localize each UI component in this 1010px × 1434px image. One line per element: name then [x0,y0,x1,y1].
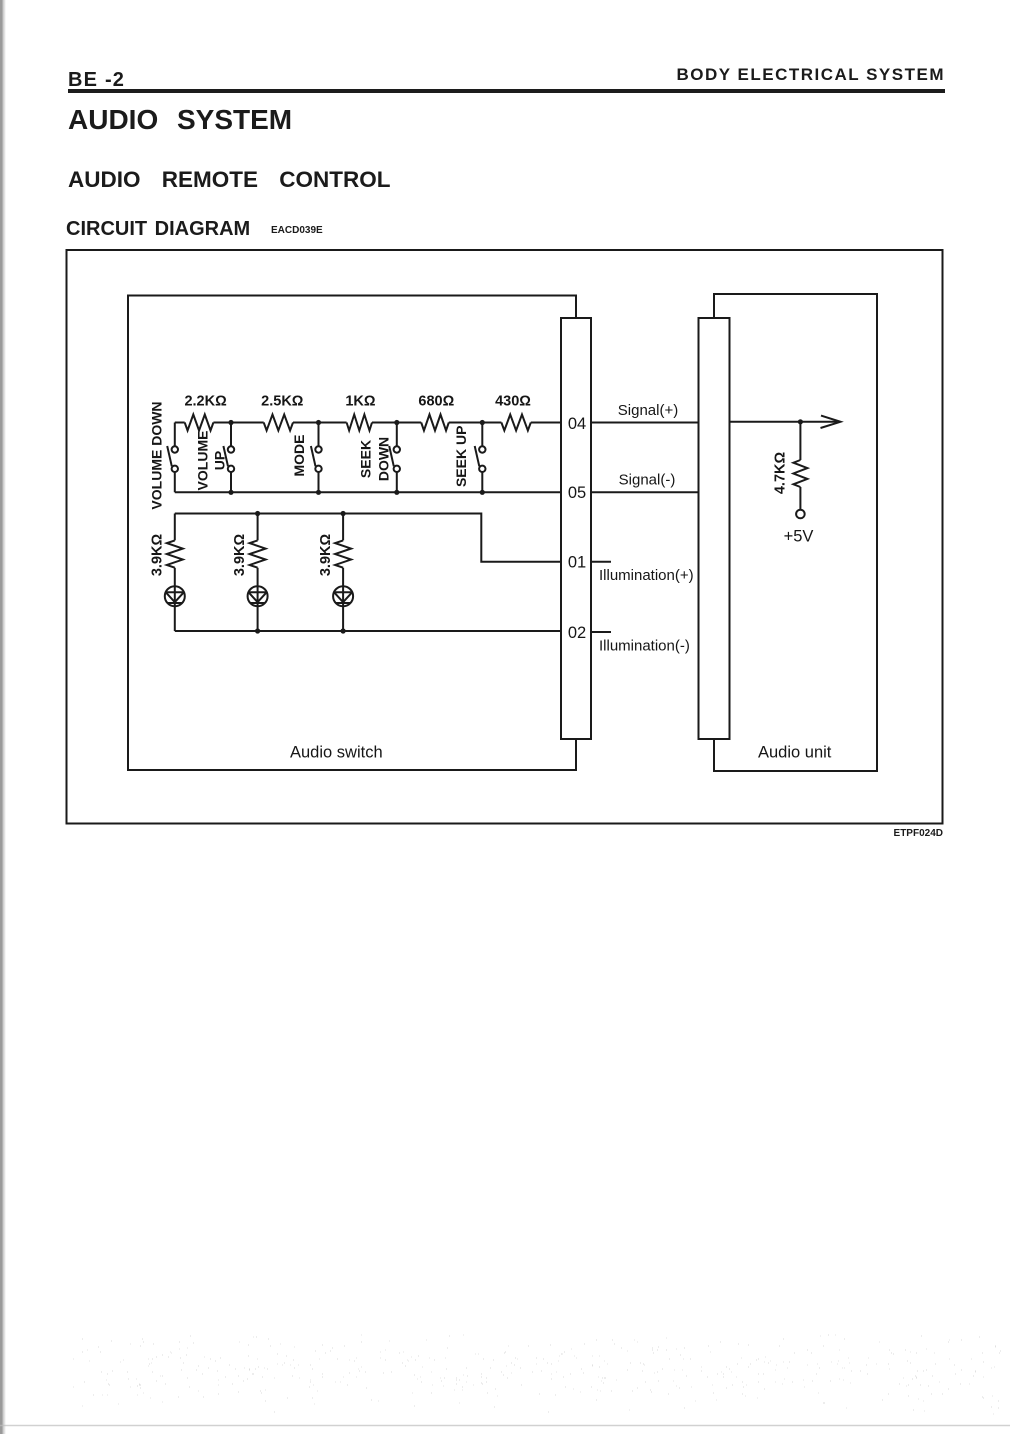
header: BODY ELECTRICAL SYSTEM [645,66,945,83]
resistor R 430 zigzag [501,415,530,431]
svg-text:Signal(+): Signal(+) [618,402,678,419]
header: page number BE -2 [68,70,125,90]
svg-text:2.5KΩ: 2.5KΩ [261,394,304,410]
title AUDIO SYSTEM [68,106,292,134]
illumination branch 1: wire [174,514,176,632]
wire: 4.7K pull-up branch [799,422,801,510]
resistor R 3.9K (branch 1) [167,540,183,567]
svg-text:1KΩ: 1KΩ [345,394,376,410]
label SEEK DOWN (rotated, 2 lines) [358,437,392,481]
wire: Signal(-) between connectors [591,491,699,493]
arrowhead [821,416,841,428]
header rule [68,89,945,93]
svg-text:+5V: +5V [784,528,814,546]
node dot at 4.7K tap [798,419,803,424]
wire: Signal(+) between connectors [591,422,699,424]
svg-text:SEEK: SEEK [358,440,374,478]
wire: signal line inside audio unit with arrow [730,421,837,423]
svg-text:3.9KΩ: 3.9KΩ [318,534,334,577]
wire: illumination bottom rail (pin 02 row) [175,630,561,632]
Audio switch box [128,296,576,771]
switch SW2 VOLUME UP [223,423,234,493]
svg-text:2.2KΩ: 2.2KΩ [184,394,227,410]
figure code ETPF024D [843,829,943,839]
label VOLUME UP (rotated, 2 lines) [195,431,228,491]
node junction dots on top rail [228,420,485,425]
resistor R 1K zigzag [347,415,372,431]
wire: top resistor-chain rail (pin 04 row) [175,422,561,424]
svg-text:Audio switch: Audio switch [290,744,383,762]
resistor R 2.5K zigzag [264,415,293,431]
scan noise [73,1335,1001,1414]
node junction dots on 05 rail [228,490,485,495]
node junction dots on 02 rail [255,628,346,633]
svg-text:VOLUME DOWN: VOLUME DOWN [149,401,165,509]
svg-text:DOWN: DOWN [375,437,391,481]
svg-text:3.9KΩ: 3.9KΩ [150,534,166,577]
svg-text:VOLUME: VOLUME [195,431,211,491]
Audio unit box [714,294,877,771]
LED D2 [248,586,268,606]
illumination branch 3: wire [342,514,344,632]
svg-text:Illumination(+): Illumination(+) [599,567,694,584]
switch SW4 SEEK DOWN [389,423,400,493]
svg-text:4.7KΩ: 4.7KΩ [772,452,788,495]
LED D1 [165,586,185,606]
figure code EACD039E [271,226,323,236]
svg-text:02: 02 [568,624,586,642]
svg-text:680Ω: 680Ω [418,394,454,410]
title CIRCUIT DIAGRAM [66,219,250,239]
svg-text:Illumination(-): Illumination(-) [599,637,690,654]
resistor R 680 zigzag [421,415,449,431]
svg-text:Signal(-): Signal(-) [619,472,676,489]
wire: illumination top rail to pin 01 [175,514,561,562]
resistor R 3.9K (branch 2) [250,540,266,567]
wire: switch common rail (pin 05 row) [175,491,561,493]
title AUDIO REMOTE CONTROL [68,168,391,191]
outer diagram frame [67,250,943,824]
switch SW5 SEEK UP [475,423,486,493]
illumination branch 2: wire [257,514,259,632]
svg-text:01: 01 [568,554,586,572]
svg-text:3.9KΩ: 3.9KΩ [232,534,248,577]
wire: pin 01 stub [591,561,611,563]
svg-text:430Ω: 430Ω [495,394,531,410]
resistor R 2.2K zigzag [185,415,214,431]
connector J2 (audio unit side) [699,318,730,739]
switch SW1 VOLUME DOWN [167,423,178,493]
switch SW3 MODE [311,423,322,493]
terminal circle +5V [796,510,805,519]
resistor R 4.7K [793,460,807,487]
svg-text:04: 04 [568,415,586,433]
resistor R 3.9K (branch 3) [335,540,351,567]
connector J1 (audio switch side) [561,318,591,739]
svg-text:MODE: MODE [291,435,307,477]
node junction dots on illumination top rail [255,511,346,516]
svg-text:UP: UP [211,451,227,470]
svg-text:SEEK UP: SEEK UP [453,426,469,487]
wire: pin 02 stub [591,631,611,633]
svg-text:Audio unit: Audio unit [758,744,832,762]
svg-text:05: 05 [568,484,586,502]
LED D3 [333,586,353,606]
